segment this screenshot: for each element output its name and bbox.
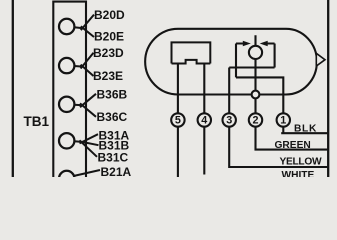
svg-text:5: 5 xyxy=(175,115,181,127)
terminal circle 3 xyxy=(59,97,74,112)
terminal circle 1 xyxy=(59,19,74,34)
svg-text:2: 2 xyxy=(252,115,258,127)
wire below pin 4 xyxy=(203,126,205,174)
svg-text:1: 1 xyxy=(280,115,286,127)
wire fork from terminal 1 to B20D/B20E xyxy=(74,15,94,37)
svg-text:BLK: BLK xyxy=(294,123,317,134)
svg-text:B20D: B20D xyxy=(94,8,125,22)
sensor circle xyxy=(249,46,262,59)
device outline capsule xyxy=(145,29,317,95)
svg-text:YELLOW: YELLOW xyxy=(280,157,322,168)
terminal block TB1 outline xyxy=(53,2,86,178)
pin circle 1 xyxy=(277,113,290,126)
svg-text:WHITE: WHITE xyxy=(282,170,315,177)
wire fork from terminal 4 to B31A/B31B/B31C xyxy=(74,134,98,157)
component box (right, sensor with wiper) xyxy=(229,44,274,78)
svg-text:B36B: B36B xyxy=(97,87,128,101)
lead from box to pin 4 xyxy=(203,64,205,114)
pin circle 3 xyxy=(223,113,236,126)
green wire from pin 2 xyxy=(256,126,328,149)
svg-text:B23D: B23D xyxy=(93,46,124,60)
center wiper rail wire xyxy=(254,35,256,113)
lead from box to pin 5 xyxy=(177,64,179,114)
jog wire to pin 1 xyxy=(236,77,283,113)
svg-text:4: 4 xyxy=(201,115,207,127)
pin circle 4 xyxy=(198,113,211,126)
svg-text:TB1: TB1 xyxy=(24,114,50,129)
wire fork from terminal 2 to B23D/B23E xyxy=(74,53,93,76)
wire fork from terminal 3 to B36B/B36C xyxy=(74,94,96,117)
right arrow of wiper xyxy=(267,43,275,45)
svg-text:B31C: B31C xyxy=(98,150,129,164)
svg-text:B36C: B36C xyxy=(97,110,128,124)
wire from terminal 5 to B21A xyxy=(74,170,101,176)
wire from box to pin 3 xyxy=(228,68,230,114)
connector tip triangle xyxy=(316,53,325,66)
wire below pin 5 xyxy=(177,126,179,177)
component box (left, motor winding) xyxy=(172,42,211,63)
left border line xyxy=(12,0,14,177)
right border line xyxy=(327,0,329,177)
pin circle 5 xyxy=(171,113,184,126)
yellow wire from pin 3 xyxy=(229,126,327,167)
grommet node on capsule edge xyxy=(252,91,260,99)
terminal circle 5 (partial at bottom) xyxy=(59,171,74,186)
black wire from pin 1 xyxy=(281,126,327,133)
svg-text:3: 3 xyxy=(226,115,232,127)
svg-text:B20E: B20E xyxy=(94,30,124,44)
svg-text:GREEN: GREEN xyxy=(275,140,311,151)
svg-text:B21A: B21A xyxy=(101,165,132,177)
left arrow of wiper xyxy=(236,43,244,45)
svg-text:B23E: B23E xyxy=(93,69,123,83)
terminal circle 4 xyxy=(59,133,74,148)
terminal circle 2 xyxy=(59,58,74,73)
pin circle 2 xyxy=(249,113,262,126)
